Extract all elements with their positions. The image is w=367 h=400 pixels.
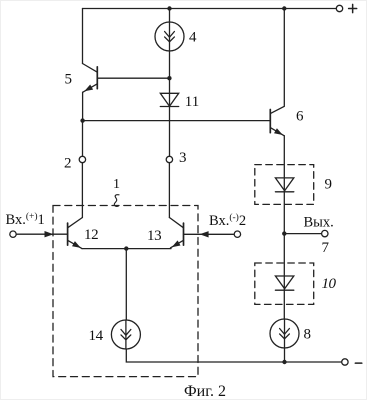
svg-text:Вх.(-)2: Вх.(-)2 <box>209 212 246 229</box>
svg-text:3: 3 <box>179 150 187 166</box>
svg-text:1: 1 <box>113 177 120 192</box>
svg-text:11: 11 <box>185 94 199 110</box>
svg-text:4: 4 <box>189 30 197 46</box>
svg-text:14: 14 <box>89 328 104 344</box>
svg-text:10: 10 <box>322 276 337 292</box>
svg-text:5: 5 <box>65 71 73 87</box>
svg-text:2: 2 <box>64 156 72 172</box>
svg-text:Фиг. 2: Фиг. 2 <box>184 383 226 399</box>
svg-text:7: 7 <box>322 240 330 256</box>
svg-text:13: 13 <box>147 228 161 244</box>
svg-text:8: 8 <box>304 327 312 343</box>
svg-text:Вых.: Вых. <box>304 214 334 230</box>
svg-text:Вх.(+)1: Вх.(+)1 <box>6 211 45 228</box>
svg-text:6: 6 <box>296 109 304 125</box>
svg-text:12: 12 <box>84 227 98 243</box>
svg-text:9: 9 <box>325 177 333 193</box>
